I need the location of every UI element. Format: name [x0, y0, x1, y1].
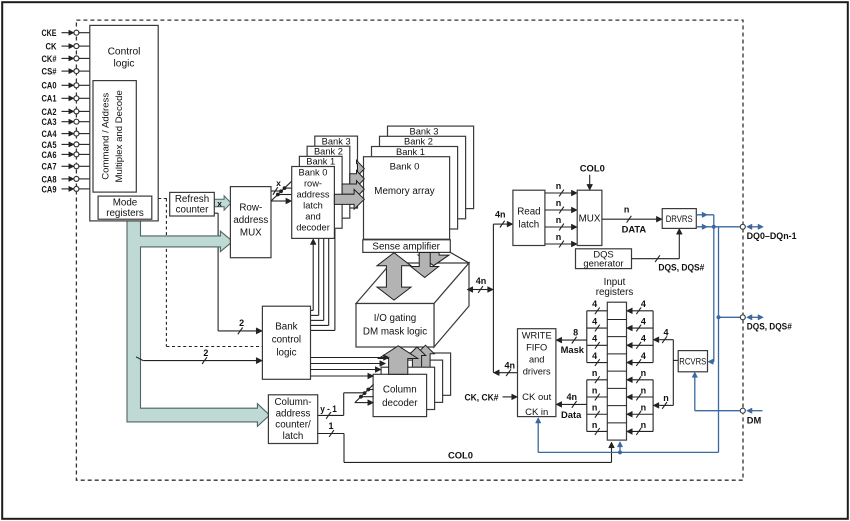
svg-text:x: x [276, 178, 281, 188]
wires: bank control logic to column decoder (bank selects) [311, 355, 390, 379]
svg-text:4n: 4n [476, 276, 487, 286]
svg-text:4: 4 [592, 351, 597, 361]
block: WRITE FIFO and drivers / CK out CK in [518, 329, 556, 419]
svg-text:4n: 4n [566, 392, 577, 402]
svg-text:n: n [663, 393, 669, 403]
block: Bank control logic [262, 306, 310, 379]
block: Sense amplifier [363, 240, 451, 253]
svg-text:n: n [556, 215, 562, 225]
input pin CA7 [42, 162, 93, 172]
svg-text:DQ0–DQn-1: DQ0–DQn-1 [747, 231, 797, 241]
block: DRVRS output drivers [662, 209, 696, 229]
wires: read latch to output MUX (4 x n) [545, 181, 577, 247]
svg-text:registers: registers [596, 287, 634, 298]
svg-text:n: n [592, 403, 598, 413]
svg-text:n: n [556, 232, 562, 242]
svg-text:CA9: CA9 [42, 184, 57, 194]
block: Read latch [513, 190, 545, 245]
svg-text:DQS, DQS#: DQS, DQS# [747, 322, 793, 332]
block stack: input registers (8 cells) [607, 302, 626, 440]
input pin CA9 [42, 184, 93, 194]
wires: input register outputs to mask/data buses (left) [587, 299, 608, 435]
dashed connector: control logic to refresh counter and bank control logic [158, 199, 262, 347]
svg-text:decoder: decoder [382, 398, 418, 409]
svg-text:n: n [592, 385, 598, 395]
svg-text:DATA: DATA [622, 223, 647, 234]
input pin CA2 [42, 107, 93, 117]
input pin CA8 [42, 174, 93, 184]
wire: MUX DATA output to DRVRS, width n [602, 205, 662, 235]
input pin CS# [42, 67, 93, 77]
svg-text:Bank 3: Bank 3 [322, 136, 351, 146]
input pin CKE [42, 28, 93, 38]
block: I/O gating DM mask logic (3D) [356, 263, 469, 347]
input pin CA4 [42, 129, 93, 139]
wire: 4n bus to read latch [493, 210, 513, 228]
svg-text:drivers: drivers [523, 367, 551, 377]
svg-text:DRVRS: DRVRS [666, 214, 693, 224]
svg-text:generator: generator [583, 258, 623, 269]
wire: address bus tap to bank control logic, width 2 [136, 348, 262, 364]
svg-text:and: and [529, 355, 545, 365]
svg-text:counter: counter [176, 205, 209, 216]
svg-text:n: n [641, 403, 647, 413]
bus arrow (front): sense amplifier to I/O gating (double headed) [377, 253, 411, 300]
svg-text:4: 4 [663, 328, 668, 338]
svg-text:latch: latch [303, 200, 323, 210]
svg-text:address: address [233, 215, 268, 226]
wire: 4n bus to write FIFO [493, 361, 517, 376]
wires: receiver buses to input registers (right) [627, 299, 654, 435]
wire (blue): DRVRS DQS output [696, 212, 714, 364]
bus arrows (rear): sense amplifier to I/O gating for banks 1-2 [411, 253, 449, 278]
svg-text:address: address [276, 408, 311, 419]
block: Bank 0 row-address latch and decoder [292, 167, 335, 239]
svg-text:Input: Input [604, 277, 626, 288]
svg-text:n: n [556, 198, 562, 208]
svg-text:4: 4 [641, 351, 646, 361]
svg-text:n: n [624, 205, 630, 215]
svg-text:1: 1 [328, 421, 333, 431]
svg-text:counter/: counter/ [275, 420, 311, 431]
svg-text:4: 4 [641, 316, 646, 326]
svg-text:MUX: MUX [579, 214, 601, 225]
svg-text:Control: Control [108, 46, 141, 57]
block: Bank 0 memory array [364, 157, 450, 240]
chip boundary (dashed) [76, 20, 743, 480]
svg-text:Mask: Mask [561, 344, 585, 355]
block: Control logic [90, 25, 158, 221]
svg-text:Refresh: Refresh [175, 194, 209, 205]
wire: mask bus to WRITE FIFO, width 8 [556, 328, 587, 356]
block stack: column decoder rear sheets [389, 353, 451, 402]
wire: COL0 select into MUX [580, 162, 605, 190]
block: RCVRS input receivers [678, 351, 707, 372]
svg-text:4: 4 [641, 334, 646, 344]
svg-text:CK out: CK out [522, 392, 551, 403]
svg-text:4n: 4n [495, 210, 506, 220]
svg-text:COL0: COL0 [448, 450, 473, 461]
pad: DQ0-DQn-1 (bidirectional) [740, 224, 796, 241]
svg-text:Memory array: Memory array [374, 186, 435, 197]
svg-text:Column: Column [383, 384, 417, 395]
block stack: memory array sheets Bank 3/2/1 [372, 126, 474, 229]
svg-text:address: address [296, 190, 329, 200]
block: Column-address counter/latch [268, 395, 317, 444]
wire (blue): DQS distribution to CK in and input registers [536, 227, 721, 455]
svg-text:CA8: CA8 [42, 174, 57, 184]
svg-text:decoder: decoder [296, 222, 330, 232]
svg-text:Bank 1: Bank 1 [396, 147, 425, 157]
svg-text:n: n [641, 385, 647, 395]
svg-text:COL0: COL0 [580, 162, 605, 173]
block: Command / Address Multiplex and Decode [93, 81, 136, 193]
svg-text:8: 8 [573, 328, 578, 338]
svg-text:n: n [556, 181, 562, 191]
block: Row-address MUX [230, 187, 271, 258]
label: Input registers [596, 277, 634, 298]
wires: bank control logic to row-address latch selects [310, 229, 335, 330]
input pin CA1 [42, 94, 93, 104]
svg-text:logic: logic [114, 59, 135, 70]
svg-text:and: and [305, 211, 321, 221]
svg-text:4: 4 [641, 299, 646, 309]
svg-text:CA0: CA0 [42, 81, 57, 91]
input pin CA6 [42, 150, 93, 160]
svg-text:Multiplex and Decode: Multiplex and Decode [114, 90, 125, 182]
svg-text:CK: CK [46, 42, 57, 52]
wire: column-address counter COL0 to input registers, width 1 [318, 421, 615, 462]
svg-text:4: 4 [592, 316, 597, 326]
svg-text:CA5: CA5 [42, 140, 57, 150]
svg-text:Bank 2: Bank 2 [314, 146, 343, 156]
svg-text:CK#: CK# [42, 54, 57, 64]
input pin CA5 [42, 140, 93, 150]
block stack: column decoder sheet bank 1 [381, 367, 435, 409]
address bus (teal) from mode registers to row-address MUX and column-address counter [127, 221, 270, 427]
input pin CK [46, 42, 93, 52]
wire fan: row-address MUX to bank row-address latches, width x [271, 178, 292, 204]
svg-text:CA6: CA6 [42, 150, 57, 160]
wire: refresh counter to bank control logic, width 2 [214, 213, 262, 334]
wire: CK, CK# input to WRITE FIFO [465, 392, 518, 403]
refresh counter output arrow (teal) with x width label [214, 196, 231, 211]
svg-text:MUX: MUX [240, 227, 262, 238]
svg-text:CA7: CA7 [42, 162, 57, 172]
svg-text:Bank 1: Bank 1 [306, 157, 335, 167]
svg-text:Data: Data [561, 409, 582, 420]
svg-text:logic: logic [276, 348, 296, 359]
svg-text:Column-: Column- [274, 397, 311, 408]
svg-text:y - 1: y - 1 [320, 404, 337, 414]
svg-text:x: x [217, 198, 222, 208]
svg-text:4n: 4n [505, 361, 516, 371]
svg-text:Bank 3: Bank 3 [410, 127, 439, 137]
svg-text:CS#: CS# [42, 67, 57, 77]
wire fan: column-address counter to column decoder, width y - 1 [318, 384, 374, 419]
svg-text:latch: latch [519, 219, 540, 230]
svg-text:CK in: CK in [525, 407, 548, 418]
input pin CA3 [42, 117, 93, 127]
svg-text:registers: registers [106, 208, 144, 219]
wire: data bus to WRITE FIFO, width 4n [556, 392, 587, 420]
input pin CK# [42, 54, 93, 64]
svg-text:Bank 0: Bank 0 [390, 162, 420, 173]
block: Column decoder [373, 374, 427, 416]
block: output MUX [577, 190, 602, 245]
wires: RCVRS outputs to register buses, widths 4 and n [653, 328, 678, 409]
bus arrow (front): column decoder to I/O gating [379, 346, 418, 375]
block: Refresh counter [170, 192, 215, 216]
svg-text:DQS, DQS#: DQS, DQS# [658, 261, 705, 272]
bus arrows: row-address latches to memory array banks (staircase) [334, 160, 364, 209]
svg-text:DM: DM [747, 416, 762, 426]
svg-text:CA2: CA2 [42, 107, 57, 117]
svg-text:2: 2 [239, 318, 244, 328]
svg-text:CA4: CA4 [42, 129, 58, 139]
input pin CA0 [42, 81, 93, 91]
svg-text:latch: latch [283, 431, 304, 442]
svg-text:CK, CK#: CK, CK# [465, 392, 500, 403]
bus wire: 4n vertical data bus at memory right [492, 224, 494, 373]
svg-text:4: 4 [592, 299, 597, 309]
3D edge: sense amplifier to I/O gating corner [450, 252, 469, 263]
pad: DM input to RCVRS [692, 372, 762, 426]
svg-text:Mode: Mode [113, 197, 138, 208]
svg-text:Command / Address: Command / Address [101, 93, 112, 180]
svg-text:Bank: Bank [275, 322, 297, 333]
svg-text:Read: Read [517, 207, 540, 218]
svg-text:DM mask logic: DM mask logic [363, 327, 427, 338]
svg-text:I/O gating: I/O gating [374, 313, 416, 324]
block: DQS generator [576, 248, 632, 268]
svg-text:CA1: CA1 [42, 94, 57, 104]
svg-text:2: 2 [203, 348, 208, 358]
svg-text:n: n [641, 368, 647, 378]
pad: DQS, DQS# (bidirectional) [719, 315, 793, 332]
svg-text:FIFO: FIFO [526, 343, 547, 353]
svg-text:WRITE: WRITE [522, 331, 552, 341]
svg-text:CKE: CKE [42, 28, 57, 38]
svg-text:RCVRS: RCVRS [679, 356, 706, 366]
svg-text:4: 4 [592, 334, 597, 344]
svg-text:CA3: CA3 [42, 117, 57, 127]
svg-text:Sense amplifier: Sense amplifier [372, 242, 440, 253]
block: Mode registers [98, 196, 152, 219]
svg-text:n: n [641, 420, 647, 430]
svg-text:Row-: Row- [239, 203, 262, 214]
svg-text:n: n [592, 368, 598, 378]
svg-text:n: n [592, 420, 598, 430]
bus arrow: memory I/O 4n (double headed) with label [467, 276, 493, 293]
wire (blue): DRVRS DQ output to DQ pad [696, 224, 740, 229]
svg-text:Bank 0: Bank 0 [299, 168, 328, 178]
svg-text:control: control [272, 335, 301, 346]
bus arrows (rear): column decoder to I/O gating banks [408, 345, 434, 372]
svg-text:row-: row- [304, 179, 322, 189]
svg-text:Bank 2: Bank 2 [404, 137, 433, 147]
block stack: bank row-address latch sheets Bank 3/2/1 [299, 136, 357, 228]
wire: DQS generator to DRVRS, DQS and DQS# [632, 228, 706, 272]
